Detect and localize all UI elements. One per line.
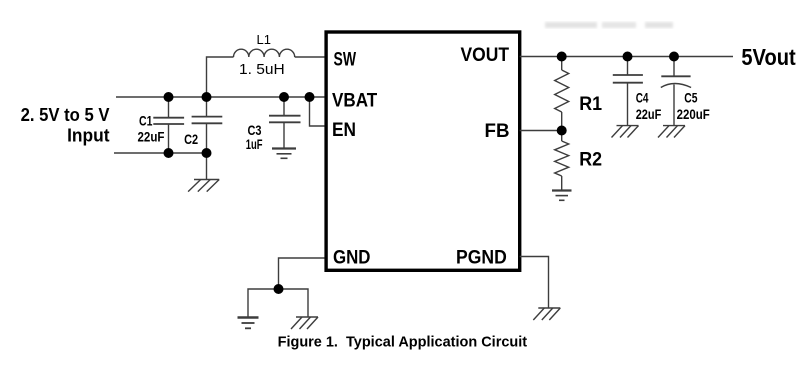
- capacitor C4: [613, 57, 643, 126]
- chassis ground right: [291, 317, 318, 329]
- wire PGND: [520, 257, 549, 308]
- capacitor C1: [153, 97, 184, 153]
- junction dots input side: [164, 92, 174, 102]
- capacitor C3: [269, 97, 301, 148]
- svg-text:FB: FB: [485, 120, 510, 142]
- inductor L1: [234, 49, 295, 57]
- svg-text:1uF: 1uF: [246, 137, 263, 152]
- capacitor C2: [192, 97, 223, 153]
- faint erased watermark: [545, 22, 673, 28]
- svg-text:C3: C3: [248, 123, 262, 138]
- junction dot FB node: [557, 126, 567, 136]
- svg-text:2. 5V to 5 V: 2. 5V to 5 V: [21, 105, 110, 125]
- resistor R2: [555, 131, 569, 191]
- svg-text:C1: C1: [139, 114, 153, 129]
- svg-text:220uF: 220uF: [677, 107, 710, 122]
- svg-text:L1: L1: [257, 32, 271, 47]
- svg-text:Input: Input: [67, 126, 109, 146]
- svg-text:5Vout: 5Vout: [741, 44, 796, 70]
- wire FB: [520, 130, 562, 132]
- wire C2 to ground: [206, 153, 208, 180]
- chassis ground under C2: [188, 180, 219, 192]
- svg-text:GND: GND: [333, 247, 371, 269]
- wire SW: [295, 56, 325, 58]
- svg-text:SW: SW: [334, 48, 357, 70]
- earth ground under C3: [272, 149, 296, 159]
- svg-text:VOUT: VOUT: [461, 44, 510, 66]
- svg-text:22uF: 22uF: [138, 129, 165, 144]
- wire GND right branch: [279, 289, 309, 317]
- chassis ground under C4: [612, 126, 639, 138]
- capacitor C5: [661, 57, 691, 126]
- wire VOUT rail: [520, 56, 733, 58]
- svg-text:R1: R1: [579, 93, 602, 115]
- svg-text:EN: EN: [332, 119, 356, 141]
- svg-text:C5: C5: [684, 90, 698, 105]
- IC U1 body: [326, 32, 520, 270]
- svg-text:VBAT: VBAT: [332, 89, 377, 111]
- wire EN jog: [310, 97, 325, 126]
- svg-text:C2: C2: [184, 132, 198, 147]
- svg-text:C4: C4: [636, 90, 649, 105]
- junction dot GND node: [274, 284, 284, 294]
- wire input lower rail: [114, 152, 207, 154]
- junction dots output rail: [557, 52, 567, 62]
- resistor R1: [555, 57, 569, 131]
- wire GND: [279, 258, 325, 289]
- wire L1 left vertical: [207, 57, 234, 97]
- wire GND left branch: [248, 289, 279, 317]
- earth ground under R2: [552, 191, 572, 201]
- svg-text:PGND: PGND: [456, 247, 507, 269]
- svg-text:R2: R2: [579, 148, 602, 170]
- earth ground left: [238, 318, 259, 329]
- svg-text:Figure 1. Typical Application: Figure 1. Typical Application Circuit: [278, 335, 528, 351]
- wire VBAT rail: [116, 96, 325, 98]
- chassis ground under C5: [658, 126, 685, 138]
- svg-text:1. 5uH: 1. 5uH: [239, 61, 285, 78]
- chassis ground PGND: [533, 308, 560, 320]
- svg-text:22uF: 22uF: [636, 107, 662, 122]
